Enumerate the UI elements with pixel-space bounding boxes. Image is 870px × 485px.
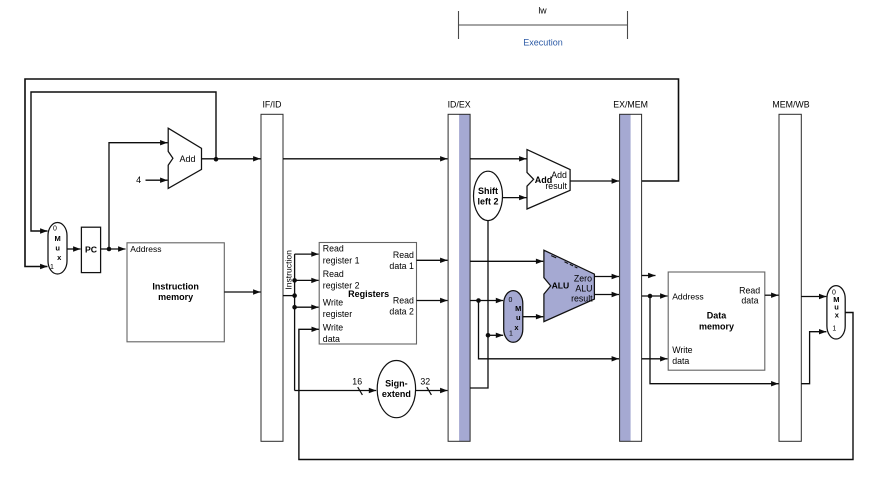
wire ALU Zero to EX/MEM [594,274,619,279]
wire instruction bus vertical [292,254,297,390]
svg-text:M: M [515,304,521,313]
wire Add output to IF/ID [202,156,261,161]
svg-text:extend: extend [382,389,411,399]
wire ALU result from MEM/WB to WB mux input 1 [801,329,826,384]
svg-text:Sign-: Sign- [385,378,408,388]
svg-text:Add: Add [180,154,196,164]
ellipse Shift left 2 [474,171,503,220]
svg-text:PC: PC [85,244,98,254]
wire Read data 2 down-branch to EX/MEM write data [479,301,620,362]
svg-text:u: u [516,313,521,322]
wire ALUSrc mux output to ALU [523,314,544,319]
svg-text:Data: Data [707,311,728,321]
node 32-bit width tick [420,376,431,395]
svg-text:ALU: ALU [575,284,592,294]
node constant 4 [136,175,141,185]
wire bus to Write register [295,305,319,310]
svg-text:ALU: ALU [552,280,570,290]
svg-text:data: data [323,334,340,344]
wire bus to Read register 2 [295,278,319,283]
wire ALU result to EX/MEM [594,292,619,297]
svg-text:register: register [323,309,352,319]
op-amp ALU (highlighted) [544,250,595,321]
svg-text:u: u [55,243,60,252]
wire instruction from IF/ID to register-file bus [283,293,297,298]
wire ALU result from EX/MEM to data memory Address [642,293,668,298]
svg-text:Registers: Registers [348,289,389,299]
svg-text:Read: Read [393,250,414,260]
wire top bracket group (lw / Execution) [459,6,628,48]
svg-text:Read: Read [323,244,344,254]
wire branch-target feedback from EX/MEM to PC mux input 1 [25,79,679,269]
register ID/EX (read half highlighted) [448,100,471,442]
wire ALU result bypass down to MEM/WB [650,296,779,386]
wire Read data 2 from ID/EX to ALUSrc mux and down to EX/MEM [470,298,503,303]
memory Data memory [668,272,765,370]
svg-text:left 2: left 2 [477,196,498,206]
svg-text:Read: Read [739,285,760,295]
svg-text:data 1: data 1 [389,261,414,271]
svg-text:4: 4 [136,175,141,185]
wire sign-extended immediate from ID/EX up to Shift left 2 [470,221,490,388]
svg-text:ID/EX: ID/EX [448,100,471,110]
wire data memory Read data to MEM/WB [765,293,779,298]
svg-text:0: 0 [508,297,512,304]
svg-text:memory: memory [699,321,734,331]
mux PC-source (top-left) [48,223,67,275]
register IF/ID [261,100,283,442]
svg-text:1: 1 [50,264,54,271]
wire Sign-extend output to ID/EX (32 bits) [416,388,448,393]
wire branch Add result to EX/MEM [570,178,619,183]
svg-text:result: result [571,294,593,304]
wire Zero flag out of EX/MEM (dangling) [642,273,656,278]
wire instruction memory output to IF/ID [224,289,260,294]
ellipse Sign-extend [377,361,415,418]
adder Add (PC+4) [168,128,201,188]
wire constant 4 to Add bottom input [146,178,168,183]
svg-text:Address: Address [672,291,704,301]
wire PC+4 from Add output to PC mux input 0 [31,92,218,234]
wire Shift left 2 output to branch Add [503,195,527,200]
svg-text:lw: lw [538,6,547,16]
svg-text:Instruction: Instruction [283,250,293,290]
svg-text:M: M [54,234,60,243]
svg-text:1: 1 [509,330,513,337]
svg-text:data 2: data 2 [389,307,414,317]
wire Read data 2 to ID/EX [417,298,448,303]
wire bus to Sign-extend (16 bits) [295,388,377,393]
wire PC value up to Add top input [109,140,168,249]
wire write data from EX/MEM to data memory [642,356,668,361]
svg-text:memory: memory [158,292,193,302]
node Instruction (vertical label) [283,250,293,290]
svg-text:Address: Address [130,244,161,254]
adder Add (branch target) [527,150,570,209]
svg-text:0: 0 [53,225,57,232]
node 16-bit width tick [352,376,362,395]
svg-text:Instruction: Instruction [152,282,199,292]
svg-text:Read: Read [393,296,414,306]
svg-text:Write: Write [323,298,343,308]
svg-text:Write: Write [672,345,692,355]
svg-text:IF/ID: IF/ID [262,100,281,110]
mux MemtoReg (write-back) [827,286,845,339]
wire Read data 1 to ID/EX [417,258,448,263]
wire immediate branch to ALUSrc mux input 1 [488,333,503,338]
svg-text:data: data [741,295,758,305]
svg-text:Add: Add [551,170,567,180]
wire Read data from MEM/WB to WB mux input 0 [801,294,826,299]
svg-text:EX/MEM: EX/MEM [613,100,648,110]
svg-text:result: result [545,181,567,191]
svg-text:Execution: Execution [523,38,563,48]
svg-text:Shift: Shift [478,186,498,196]
mux ALUSrc (highlighted) [504,291,523,343]
svg-text:1: 1 [832,325,836,332]
svg-text:16: 16 [352,376,362,386]
register MEM/WB [772,100,809,442]
svg-text:Read: Read [323,269,344,279]
wire Read data 1 from ID/EX to ALU [470,259,543,264]
register EX/MEM (write half highlighted) [613,100,648,442]
svg-text:Write: Write [323,322,343,332]
svg-text:MEM/WB: MEM/WB [772,100,809,110]
wire PC+4 from IF/ID to ID/EX [283,156,448,161]
svg-text:register 1: register 1 [323,255,360,265]
wire write-back result to Registers write data [299,313,853,460]
wire bus to Read register 1 [295,251,319,256]
wire PC+4 from ID/EX to branch Add [470,156,526,161]
wire mux to PC [67,246,81,251]
memory Instruction memory [127,243,224,342]
svg-text:32: 32 [420,376,430,386]
wire PC to instruction memory Address [101,246,126,251]
register file Registers [319,243,416,345]
register PC [81,227,100,272]
svg-text:data: data [672,356,689,366]
svg-text:Zero: Zero [574,273,592,283]
